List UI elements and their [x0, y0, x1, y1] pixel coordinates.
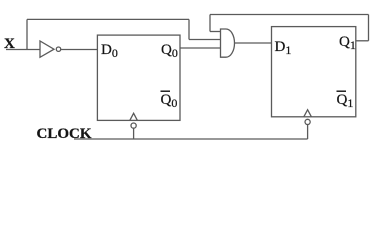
flip-flop U4 box — [272, 27, 356, 117]
label Q0 — [161, 42, 178, 60]
label D1 — [275, 39, 292, 57]
wire vertical down to gate middle input — [188, 19, 190, 39]
inverter U1 — [40, 41, 61, 57]
wire feedback right vertical — [368, 15, 370, 41]
wire into AND gate middle input — [189, 39, 221, 41]
wire gate output to D1 — [235, 42, 272, 44]
wire clock to U4 — [307, 125, 309, 140]
wire Q0 to AND gate — [180, 47, 221, 49]
wire feedback top horizontal — [210, 14, 369, 16]
wire AND top input stub — [210, 31, 221, 33]
wire branch up from X — [26, 19, 28, 49]
svg-text:Q0: Q0 — [161, 92, 178, 110]
clock edge marker U4 — [304, 110, 312, 117]
node X — [4, 36, 15, 52]
wire top horizontal X to gate column — [27, 18, 189, 20]
svg-text:Q0: Q0 — [161, 42, 178, 60]
svg-text:Q1: Q1 — [339, 34, 356, 52]
label Q̄0 — [161, 91, 178, 111]
svg-text:D0: D0 — [101, 42, 118, 60]
wire clock bus — [74, 138, 308, 140]
label D0 — [101, 42, 118, 60]
wire clock to U2 — [133, 128, 135, 139]
svg-text:Q1: Q1 — [337, 92, 354, 110]
svg-text:CLOCK: CLOCK — [37, 126, 92, 142]
wire vertical feedback into gate — [209, 15, 211, 32]
svg-text:D1: D1 — [275, 39, 292, 57]
wire Q1 output — [356, 40, 369, 42]
and-gate U3 — [221, 29, 235, 57]
label Q1 — [339, 34, 356, 52]
clock bubble U2 — [131, 123, 136, 128]
clock edge marker U2 — [130, 113, 138, 120]
wire inverter output to D0 — [61, 49, 98, 51]
flip-flop U2 box — [97, 35, 180, 120]
label Q̄1 — [337, 91, 354, 111]
wire X input — [6, 49, 40, 51]
clock bubble U4 — [305, 119, 310, 124]
label CLOCK — [37, 126, 92, 142]
